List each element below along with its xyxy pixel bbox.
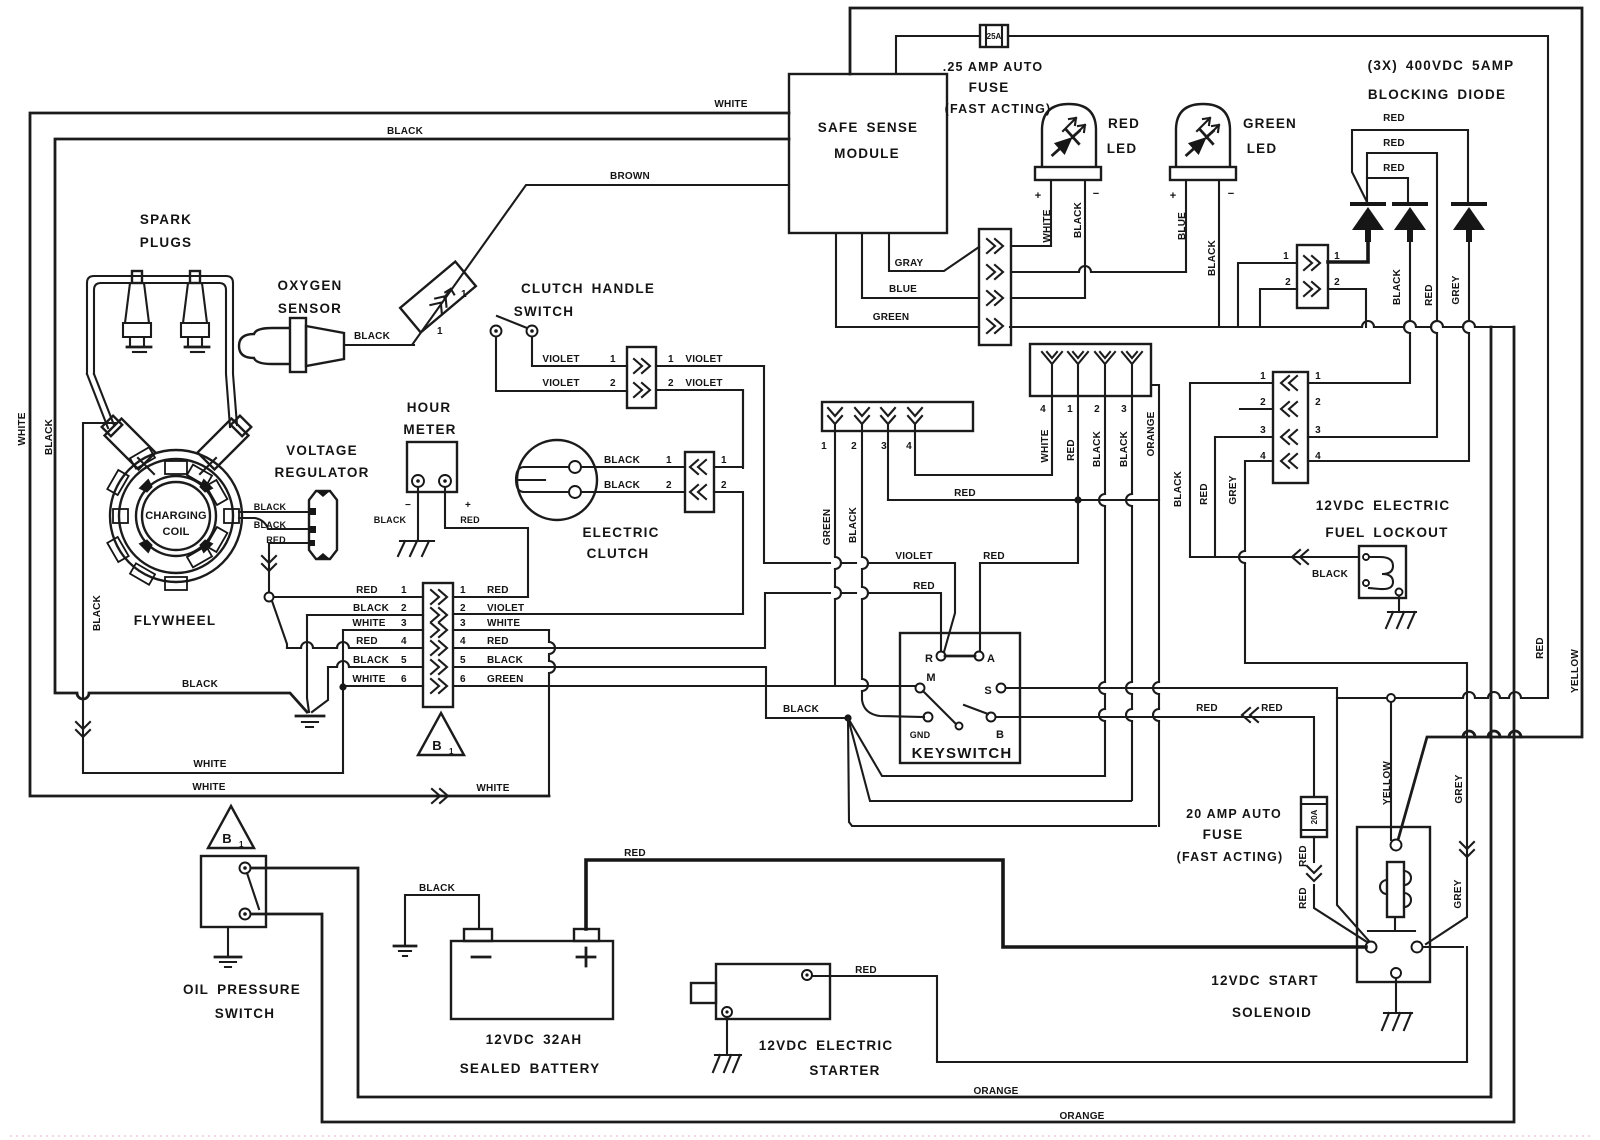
- svg-text:BLACK: BLACK: [354, 331, 391, 342]
- svg-text:BLUE: BLUE: [889, 284, 917, 295]
- svg-text:WHITE: WHITE: [476, 783, 509, 794]
- svg-text:3: 3: [1315, 425, 1321, 436]
- svg-text:VIOLET: VIOLET: [685, 354, 722, 365]
- svg-text:1: 1: [668, 354, 674, 365]
- svg-text:1: 1: [461, 289, 467, 300]
- svg-text:STARTER: STARTER: [809, 1063, 880, 1078]
- svg-text:RED: RED: [624, 848, 646, 859]
- svg-text:GREY: GREY: [1451, 275, 1462, 304]
- svg-text:YELLOW: YELLOW: [1570, 649, 1581, 693]
- svg-text:WHITE: WHITE: [1042, 209, 1053, 242]
- svg-text:REGULATOR: REGULATOR: [274, 465, 369, 480]
- svg-text:BROWN: BROWN: [610, 171, 650, 182]
- svg-text:RED: RED: [855, 965, 877, 976]
- svg-text:WHITE: WHITE: [487, 618, 520, 629]
- svg-text:RED: RED: [1383, 138, 1405, 149]
- svg-text:ORANGE: ORANGE: [973, 1086, 1018, 1097]
- svg-text:SENSOR: SENSOR: [278, 301, 342, 316]
- svg-text:GREY: GREY: [1228, 475, 1239, 504]
- svg-text:3: 3: [881, 441, 887, 452]
- svg-text:(FAST ACTING): (FAST ACTING): [1177, 850, 1284, 864]
- svg-text:BLACK: BLACK: [848, 506, 859, 543]
- svg-text:−: −: [1228, 188, 1234, 200]
- svg-text:B: B: [996, 729, 1004, 741]
- svg-text:RED: RED: [1383, 113, 1405, 124]
- svg-text:RED: RED: [266, 535, 286, 545]
- svg-text:BLACK: BLACK: [254, 502, 287, 512]
- svg-text:1: 1: [610, 354, 616, 365]
- svg-text:PLUGS: PLUGS: [140, 235, 193, 250]
- svg-text:GND: GND: [910, 730, 931, 740]
- svg-text:5: 5: [460, 655, 466, 666]
- svg-text:BLACK: BLACK: [1119, 430, 1130, 467]
- svg-text:1: 1: [1334, 251, 1340, 262]
- svg-text:VIOLET: VIOLET: [542, 354, 579, 365]
- svg-text:2: 2: [721, 480, 727, 491]
- svg-text:3: 3: [1260, 425, 1266, 436]
- svg-text:WHITE: WHITE: [193, 759, 226, 770]
- svg-text:RED: RED: [1199, 483, 1210, 505]
- svg-text:SPARK: SPARK: [140, 212, 192, 227]
- svg-text:3: 3: [460, 618, 466, 629]
- svg-text:SOLENOID: SOLENOID: [1232, 1005, 1312, 1020]
- svg-text:WHITE: WHITE: [714, 99, 747, 110]
- svg-text:RED: RED: [460, 515, 480, 525]
- svg-text:4: 4: [401, 636, 407, 647]
- svg-text:2: 2: [668, 378, 674, 389]
- svg-text:FUEL LOCKOUT: FUEL LOCKOUT: [1325, 525, 1448, 540]
- svg-text:BLOCKING DIODE: BLOCKING DIODE: [1368, 87, 1506, 102]
- svg-text:RED: RED: [1066, 439, 1077, 461]
- svg-text:2: 2: [610, 378, 616, 389]
- svg-text:BLACK: BLACK: [1207, 239, 1218, 276]
- svg-text:YELLOW: YELLOW: [1382, 761, 1393, 805]
- svg-text:M: M: [926, 672, 935, 684]
- svg-text:(3X) 400VDC 5AMP: (3X) 400VDC 5AMP: [1368, 58, 1515, 73]
- svg-text:.25 AMP AUTO: .25 AMP AUTO: [943, 60, 1044, 74]
- svg-text:MODULE: MODULE: [834, 146, 900, 161]
- svg-text:1: 1: [401, 585, 407, 596]
- svg-text:BLACK: BLACK: [44, 418, 55, 455]
- svg-text:ELECTRIC: ELECTRIC: [582, 525, 659, 540]
- svg-text:RED: RED: [1298, 887, 1309, 909]
- svg-text:BLACK: BLACK: [182, 679, 219, 690]
- svg-text:+: +: [465, 500, 471, 511]
- svg-text:6: 6: [460, 674, 466, 685]
- svg-text:20A: 20A: [1310, 809, 1319, 824]
- svg-text:BLACK: BLACK: [92, 594, 103, 631]
- svg-text:BLACK: BLACK: [353, 603, 390, 614]
- svg-text:5: 5: [401, 655, 407, 666]
- svg-text:RED: RED: [487, 585, 509, 596]
- svg-text:VIOLET: VIOLET: [487, 603, 524, 614]
- svg-text:RED: RED: [1535, 637, 1546, 659]
- svg-text:RED: RED: [1196, 703, 1218, 714]
- svg-text:6: 6: [401, 674, 407, 685]
- svg-text:VIOLET: VIOLET: [542, 378, 579, 389]
- svg-text:RED: RED: [356, 636, 378, 647]
- svg-text:RED: RED: [356, 585, 378, 596]
- svg-text:RED: RED: [1261, 703, 1283, 714]
- svg-text:SWITCH: SWITCH: [514, 304, 574, 319]
- svg-text:12VDC ELECTRIC: 12VDC ELECTRIC: [1316, 498, 1451, 513]
- svg-text:2: 2: [851, 441, 857, 452]
- svg-text:+: +: [1170, 190, 1176, 202]
- svg-text:1: 1: [1315, 371, 1321, 382]
- svg-text:RED: RED: [1383, 163, 1405, 174]
- svg-text:VIOLET: VIOLET: [895, 551, 932, 562]
- svg-text:3: 3: [1121, 404, 1127, 415]
- svg-text:COIL: COIL: [162, 526, 189, 538]
- svg-text:RED: RED: [1108, 116, 1140, 131]
- svg-text:SEALED BATTERY: SEALED BATTERY: [460, 1061, 601, 1076]
- svg-text:RED: RED: [1424, 284, 1435, 306]
- svg-text:FUSE: FUSE: [1203, 827, 1244, 842]
- svg-text:WHITE: WHITE: [352, 674, 385, 685]
- svg-text:BLACK: BLACK: [419, 883, 456, 894]
- svg-text:1: 1: [437, 326, 443, 337]
- svg-text:ORANGE: ORANGE: [1146, 411, 1157, 456]
- svg-text:1: 1: [449, 747, 454, 756]
- svg-text:GREY: GREY: [1453, 879, 1464, 908]
- svg-text:BLACK: BLACK: [604, 480, 641, 491]
- svg-text:S: S: [984, 685, 991, 697]
- svg-text:METER: METER: [403, 422, 456, 437]
- svg-text:3: 3: [401, 618, 407, 629]
- svg-text:BLACK: BLACK: [1312, 569, 1349, 580]
- svg-text:R: R: [925, 653, 933, 665]
- svg-text:RED: RED: [954, 488, 976, 499]
- svg-text:1: 1: [666, 455, 672, 466]
- svg-text:BLACK: BLACK: [254, 520, 287, 530]
- svg-text:BLACK: BLACK: [604, 455, 641, 466]
- svg-text:4: 4: [906, 441, 912, 452]
- svg-text:25A: 25A: [987, 32, 1002, 41]
- svg-text:WHITE: WHITE: [17, 412, 28, 445]
- svg-text:12VDC START: 12VDC START: [1211, 973, 1318, 988]
- svg-text:A: A: [987, 653, 995, 665]
- svg-text:1: 1: [1260, 371, 1266, 382]
- svg-text:BLACK: BLACK: [387, 126, 424, 137]
- svg-text:CLUTCH: CLUTCH: [587, 546, 650, 561]
- svg-text:OXYGEN: OXYGEN: [278, 278, 343, 293]
- svg-text:2: 2: [666, 480, 672, 491]
- svg-text:4: 4: [1260, 451, 1266, 462]
- svg-text:2: 2: [401, 603, 407, 614]
- svg-text:−: −: [1093, 188, 1099, 200]
- svg-text:BLACK: BLACK: [487, 655, 524, 666]
- svg-text:2: 2: [1260, 397, 1266, 408]
- svg-text:OIL PRESSURE: OIL PRESSURE: [183, 982, 301, 997]
- svg-text:BLACK: BLACK: [783, 704, 820, 715]
- svg-text:12VDC 32AH: 12VDC 32AH: [486, 1032, 583, 1047]
- svg-text:SAFE SENSE: SAFE SENSE: [818, 120, 919, 135]
- svg-text:LED: LED: [1247, 141, 1278, 156]
- svg-text:RED: RED: [487, 636, 509, 647]
- svg-text:2: 2: [1334, 277, 1340, 288]
- svg-text:KEYSWITCH: KEYSWITCH: [912, 745, 1013, 762]
- svg-text:GREEN: GREEN: [1243, 116, 1297, 131]
- svg-text:WHITE: WHITE: [192, 782, 225, 793]
- svg-text:GREEN: GREEN: [487, 674, 524, 685]
- svg-text:RED: RED: [1298, 845, 1309, 867]
- svg-text:1: 1: [239, 840, 244, 849]
- svg-text:GREEN: GREEN: [873, 312, 910, 323]
- svg-text:ORANGE: ORANGE: [1059, 1111, 1104, 1122]
- svg-text:1: 1: [1283, 251, 1289, 262]
- svg-text:2: 2: [1315, 397, 1321, 408]
- svg-text:4: 4: [1315, 451, 1321, 462]
- svg-text:4: 4: [460, 636, 466, 647]
- svg-text:BLACK: BLACK: [1173, 470, 1184, 507]
- svg-text:WHITE: WHITE: [1040, 429, 1051, 462]
- svg-text:B: B: [222, 831, 231, 846]
- svg-text:2: 2: [1094, 404, 1100, 415]
- svg-text:FLYWHEEL: FLYWHEEL: [134, 613, 217, 628]
- svg-text:HOUR: HOUR: [407, 400, 452, 415]
- svg-text:BLACK: BLACK: [353, 655, 390, 666]
- svg-text:(FAST ACTING): (FAST ACTING): [945, 102, 1052, 116]
- svg-text:RED: RED: [913, 581, 935, 592]
- svg-text:CHARGING: CHARGING: [145, 510, 207, 522]
- svg-text:BLACK: BLACK: [1092, 430, 1103, 467]
- svg-text:CLUTCH HANDLE: CLUTCH HANDLE: [521, 281, 655, 296]
- svg-text:GRAY: GRAY: [895, 258, 924, 269]
- svg-text:GREEN: GREEN: [822, 509, 833, 546]
- svg-text:BLACK: BLACK: [1073, 201, 1084, 238]
- svg-text:4: 4: [1040, 404, 1046, 415]
- svg-text:2: 2: [460, 603, 466, 614]
- svg-text:FUSE: FUSE: [969, 80, 1010, 95]
- svg-text:RED: RED: [983, 551, 1005, 562]
- svg-text:SWITCH: SWITCH: [215, 1006, 275, 1021]
- svg-text:BLACK: BLACK: [374, 515, 407, 525]
- svg-text:BLUE: BLUE: [1177, 212, 1188, 240]
- svg-text:1: 1: [460, 585, 466, 596]
- svg-text:+: +: [1035, 190, 1041, 202]
- svg-text:WHITE: WHITE: [352, 618, 385, 629]
- svg-text:20 AMP AUTO: 20 AMP AUTO: [1186, 807, 1282, 821]
- svg-text:2: 2: [1285, 277, 1291, 288]
- svg-text:LED: LED: [1107, 141, 1138, 156]
- svg-text:1: 1: [1067, 404, 1073, 415]
- svg-text:GREY: GREY: [1454, 774, 1465, 803]
- svg-text:1: 1: [821, 441, 827, 452]
- svg-text:VIOLET: VIOLET: [685, 378, 722, 389]
- svg-text:B: B: [432, 738, 441, 753]
- svg-text:VOLTAGE: VOLTAGE: [286, 443, 358, 458]
- svg-text:12VDC ELECTRIC: 12VDC ELECTRIC: [759, 1038, 894, 1053]
- svg-text:1: 1: [721, 455, 727, 466]
- svg-text:BLACK: BLACK: [1392, 268, 1403, 305]
- svg-text:−: −: [405, 500, 411, 511]
